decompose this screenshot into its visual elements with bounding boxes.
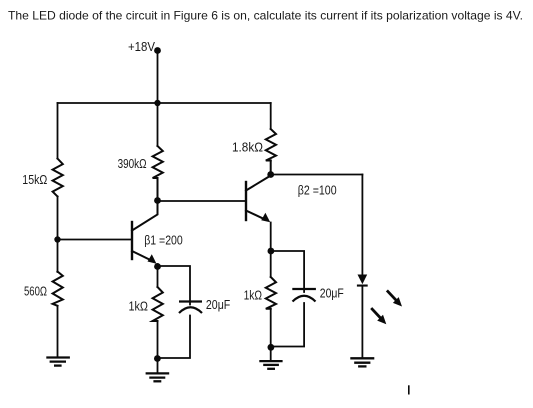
svg-text:560Ω: 560Ω bbox=[24, 285, 47, 299]
svg-text:β2 =100: β2 =100 bbox=[298, 184, 337, 198]
svg-text:20μF: 20μF bbox=[320, 287, 344, 301]
svg-text:15kΩ: 15kΩ bbox=[22, 173, 47, 187]
svg-text:1kΩ: 1kΩ bbox=[244, 289, 263, 303]
svg-text:The LED diode of the circuit i: The LED diode of the circuit in Figure 6… bbox=[8, 9, 523, 23]
svg-text:20μF: 20μF bbox=[206, 298, 231, 312]
svg-text:390kΩ: 390kΩ bbox=[118, 157, 147, 171]
svg-text:1.8kΩ: 1.8kΩ bbox=[232, 141, 263, 155]
svg-text:+18V: +18V bbox=[128, 40, 156, 54]
svg-text:1kΩ: 1kΩ bbox=[129, 300, 149, 314]
svg-text:β1 =200: β1 =200 bbox=[144, 234, 183, 248]
